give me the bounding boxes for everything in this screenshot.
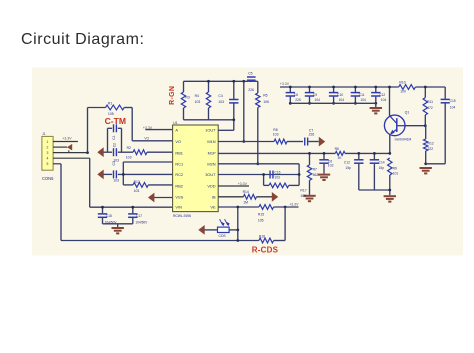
svg-text:M1N: M1N [207,139,215,144]
resistor R3 [183,81,185,92]
resistor R1 [88,107,106,109]
svg-text:R-CDS: R-CDS [252,245,279,254]
svg-text:U1: U1 [173,121,177,125]
svg-text:J1: J1 [42,132,46,136]
svg-text:103: 103 [274,175,280,179]
wire pin1 +3.3V [53,141,78,143]
capacitor C4 [233,81,235,99]
wire M1N [218,141,274,143]
capacitor C8 [289,87,291,92]
ground under R9 [384,195,396,197]
svg-text:103: 103 [195,100,201,104]
capacitor C10 [333,87,335,92]
svg-text:R16: R16 [259,235,265,239]
svg-text:C3: C3 [112,161,116,165]
ground under C17 C18 [117,224,119,227]
svg-text:226: 226 [295,98,301,102]
svg-text:VIN: VIN [175,205,182,210]
resistor R14 [218,196,243,198]
svg-text:CDS: CDS [219,234,227,238]
photoresistor CDS [205,229,218,231]
resistor R5 [257,81,259,93]
svg-text:100: 100 [400,90,406,94]
svg-text:15p: 15p [379,166,385,170]
svg-text:VO: VO [175,139,181,144]
svg-text:VSS: VSS [175,194,183,199]
svg-text:R10: R10 [399,80,405,84]
svg-text:C14: C14 [379,160,385,164]
resistor R6 [335,151,345,155]
svg-text:RCWL-9196: RCWL-9196 [173,214,191,218]
capacitor C15 [444,87,446,99]
pad arrow VSS [148,193,154,203]
capacitor C16 [269,171,271,179]
resistor R2 [133,150,147,155]
wire pin2 [53,146,67,148]
svg-text:226: 226 [309,133,315,137]
wire 3OUT [218,174,299,176]
svg-text:R13: R13 [134,180,140,184]
wire M1P [218,152,335,154]
wire VE / R15 [218,206,259,208]
transistor Q1 mmbr941M [384,115,405,136]
svg-text:R9: R9 [393,167,397,171]
wire VIN [90,206,173,208]
svg-text:C12: C12 [344,160,350,164]
wire top to M1N [243,81,245,141]
wire pin3 [53,152,88,154]
svg-text:1: 1 [47,140,49,144]
wire pin5 vertical [60,164,62,241]
schematic sheet background [32,68,463,256]
svg-text:5: 5 [47,162,49,166]
svg-text:RC2: RC2 [175,172,183,177]
svg-text:15p: 15p [345,166,351,170]
svg-text:104: 104 [360,98,366,102]
capacitor C1 [108,127,113,129]
wire base [405,125,425,127]
wire VDD [218,185,249,187]
svg-text:R11: R11 [427,100,433,104]
svg-text:VDD: VDD [207,184,215,189]
svg-text:R14: R14 [243,190,249,194]
svg-text:104: 104 [381,98,387,102]
svg-text:RB1: RB1 [175,150,183,155]
svg-text:562: 562 [313,173,319,177]
wire top R-GN rail [184,80,249,82]
capacitor C7 [304,138,306,146]
connector CON5 J1 [42,136,53,170]
capacitor C11 [354,87,356,92]
capacitor C2 [104,151,113,153]
svg-text:103: 103 [218,100,224,104]
svg-text:+3.3V: +3.3V [280,82,290,86]
svg-text:1OUT: 1OUT [205,128,216,133]
wire M2N [218,163,299,165]
pad arrow C2 row [97,147,103,157]
pad arrow CDS [198,225,204,235]
svg-text:C18: C18 [106,214,112,218]
svg-text:101: 101 [393,172,399,176]
svg-text:+3.3V: +3.3V [238,182,248,186]
svg-text:Q1: Q1 [405,110,410,114]
capacitor C18 [102,207,104,213]
wire R-CDS right vertical [284,207,286,241]
bottom rail [61,240,259,242]
resistor R13 [123,184,133,186]
svg-text:C9: C9 [313,93,317,97]
capacitor C14 [373,153,375,159]
wire emitter caps rail [359,189,390,191]
wire RC1 [123,161,172,163]
svg-text:1M: 1M [243,201,248,205]
svg-text:R6: R6 [335,147,339,151]
svg-text:R15: R15 [258,212,264,216]
svg-text:+3.3V: +3.3V [289,203,299,207]
svg-text:R5: R5 [263,94,267,98]
svg-text:RB2: RB2 [175,184,183,189]
resistor R16 [259,238,274,243]
svg-text:R3: R3 [185,95,189,99]
svg-text:RC1: RC1 [175,161,183,166]
pad arrow pin2 [67,144,72,151]
svg-text:IB: IB [212,194,216,199]
capacitor C3 [104,173,113,175]
svg-text:CON5: CON5 [42,176,54,181]
svg-text:C8: C8 [294,93,298,97]
resistor R7 [309,153,311,165]
wire R1 right vertical to VO [131,108,133,141]
resistor R12 [425,126,427,139]
resistor R15 [259,205,274,210]
svg-text:C1: C1 [112,135,116,139]
svg-text:R12: R12 [428,141,434,145]
svg-text:C15: C15 [450,99,456,103]
svg-text:104/50V: 104/50V [135,221,148,225]
svg-text:A: A [175,128,178,133]
svg-text:VO: VO [144,137,149,141]
svg-text:M1P: M1P [208,150,216,155]
wire to C15 [426,163,446,165]
svg-text:1K: 1K [337,156,342,160]
svg-text:104: 104 [315,98,321,102]
svg-text:R2: R2 [127,146,131,150]
svg-text:103: 103 [273,133,279,137]
svg-text:R4: R4 [195,94,199,98]
svg-text:103: 103 [113,178,119,182]
svg-text:103: 103 [134,189,140,193]
wire VIN vertical [89,158,91,207]
svg-text:C11: C11 [359,93,365,97]
svg-text:C4: C4 [218,94,222,98]
svg-text:C10: C10 [337,93,343,97]
svg-text:C12: C12 [379,93,385,97]
svg-text:222: 222 [428,147,434,151]
wire VO [132,140,172,142]
svg-text:4: 4 [47,157,49,161]
svg-text:C5: C5 [248,71,252,75]
svg-text:R17: R17 [300,189,306,193]
capacitor C17 [132,207,134,213]
svg-text:104: 104 [450,106,456,110]
svg-text:R1: R1 [108,102,113,106]
svg-text:C16: C16 [274,170,280,174]
svg-text:R7: R7 [313,167,317,171]
capacitor C12 [375,87,377,92]
svg-text:C-TM: C-TM [105,116,126,126]
wire +3.3V rail [280,86,399,88]
svg-text:3: 3 [47,151,49,155]
wire A +3.3V [145,129,172,131]
resistor R9 [388,158,392,175]
wire 1OUT [218,129,234,131]
resistor R11 [424,87,426,98]
pad arrow IB out [272,192,278,202]
svg-text:102: 102 [328,164,334,168]
wire R-GN bottom rail [184,119,234,121]
svg-text:R-GN: R-GN [169,86,176,105]
pad arrow M1N out [319,137,325,147]
IC U1 RCWL-9196 [173,125,219,212]
wire pin4 [53,157,90,159]
svg-text:105: 105 [258,219,264,223]
resistor R8 [274,139,287,144]
ground under R7 [303,195,315,197]
svg-text:+3.3V: +3.3V [62,137,72,141]
svg-text:M2N: M2N [207,161,215,166]
ground under R12 [420,167,432,169]
wire CDS vertical [237,207,239,241]
resistor R4 [208,81,210,92]
wire pin5 [53,163,61,165]
svg-text:10K: 10K [263,100,270,104]
svg-text:103: 103 [126,156,132,160]
resistor R17 [263,175,265,186]
wire R1 left vertical [87,108,89,153]
capacitor C5 [249,80,254,82]
svg-text:C2: C2 [112,143,116,147]
svg-text:C17: C17 [136,214,142,218]
wire emitter [389,135,391,154]
pad arrow C3 row [97,170,103,180]
wire caps bottom rail [290,102,376,104]
svg-text:104: 104 [339,98,345,102]
capacitor C6 [323,153,325,159]
svg-text:+3.3V: +3.3V [143,126,153,130]
svg-text:105: 105 [300,194,306,198]
svg-text:VE: VE [210,205,216,210]
svg-text:mmbr941M: mmbr941M [395,137,412,141]
wire collector [389,87,391,116]
wire node X vertical [122,162,124,185]
svg-text:3OUT: 3OUT [205,172,216,177]
svg-text:2: 2 [47,145,49,149]
wire caps bottom [103,223,133,225]
resistor R10 [399,85,416,90]
svg-text:472: 472 [427,106,433,110]
capacitor C12e [358,153,360,159]
svg-text:226: 226 [248,88,254,92]
capacitor C9 [309,87,311,92]
ground under C6 [318,174,330,176]
ground top caps [375,103,377,107]
svg-text:R8: R8 [273,128,277,132]
